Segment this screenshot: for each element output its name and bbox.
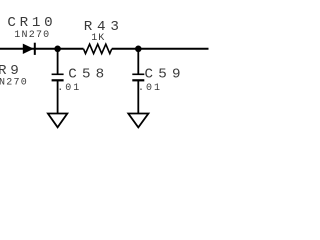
svg-text:C58: C58 <box>68 67 104 83</box>
svg-text:C59: C59 <box>145 67 181 83</box>
svg-text:.01: .01 <box>138 83 160 94</box>
svg-text:1N270: 1N270 <box>14 30 49 41</box>
wire main horizontal net (right of R43) <box>112 48 209 50</box>
wire main horizontal net (left of R43) <box>0 48 84 50</box>
resistor R43 <box>84 44 112 53</box>
diode CR10 <box>23 43 35 55</box>
svg-text:1K: 1K <box>91 33 104 44</box>
svg-text:.01: .01 <box>57 83 79 94</box>
ground left <box>48 114 67 128</box>
wire right cap drop <box>137 49 139 74</box>
svg-text:CR9: CR9 <box>0 63 19 79</box>
wire left cap drop <box>57 49 59 74</box>
svg-text:1N270: 1N270 <box>0 78 27 89</box>
node junction right <box>135 46 142 53</box>
wire right ground lead <box>137 80 139 113</box>
ground right <box>128 114 148 128</box>
wire left ground lead <box>57 80 59 113</box>
capacitor C59 <box>132 74 144 80</box>
capacitor C58 <box>52 74 64 80</box>
node junction left <box>54 46 61 53</box>
